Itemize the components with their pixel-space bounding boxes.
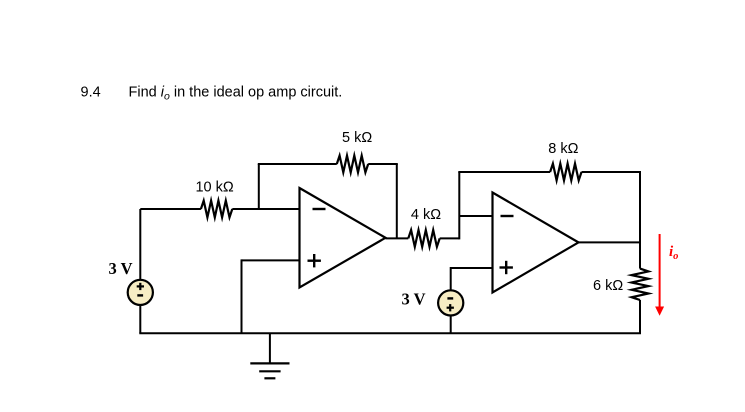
resistor R4 8 kOhm — [550, 164, 581, 181]
wire feedback-left vertical — [258, 164, 260, 210]
label 5 kOhm — [342, 130, 372, 146]
svg-text:3 V: 3 V — [402, 290, 426, 309]
label 4 kOhm — [411, 207, 441, 223]
voltage source V2 3 V — [438, 290, 463, 315]
wire non-inverting input U2 — [451, 267, 493, 269]
svg-text:3 V: 3 V — [109, 259, 133, 278]
wire feedback-right vertical — [396, 164, 398, 238]
svg-text:4 kΩ: 4 kΩ — [411, 207, 441, 223]
label 6 kOhm — [593, 278, 623, 294]
svg-text:8 kΩ: 8 kΩ — [548, 141, 578, 157]
wire middle vertical (node between R3 and U2) — [458, 172, 460, 239]
wire top-left horizontal to inverting input — [140, 208, 299, 210]
wire vertical to source V2 — [450, 267, 452, 333]
wire op-amp U1 output — [386, 237, 460, 239]
svg-text:io: io — [669, 244, 678, 262]
wire inverting input U2 — [459, 215, 492, 217]
resistor R1 10 kOhm — [201, 201, 232, 218]
label V1 value 3 V — [109, 259, 133, 278]
wire vertical from U1 plus input to ground rail — [241, 259, 243, 333]
svg-text:10 kΩ: 10 kΩ — [195, 180, 233, 196]
resistor R5 6 kOhm — [632, 269, 649, 300]
wire op-amp U2 output — [579, 241, 642, 243]
svg-text:Find io in the ideal op amp ci: Find io in the ideal op amp circuit. — [129, 85, 343, 103]
label 10 kOhm — [195, 180, 233, 196]
label V2 value 3 V — [402, 290, 426, 309]
wire top feedback horizontal — [258, 163, 398, 165]
wire bottom ground rail — [139, 332, 641, 334]
svg-text:9.4: 9.4 — [81, 85, 101, 101]
current arrow io — [655, 234, 664, 316]
voltage source V1 3 V — [128, 280, 153, 305]
wire top feedback 2 horizontal — [458, 171, 641, 173]
label io (red) — [669, 244, 678, 262]
ground — [250, 333, 289, 378]
svg-text:6 kΩ: 6 kΩ — [593, 278, 623, 294]
wire non-inverting input U1 — [242, 259, 300, 261]
resistor R3 4 kOhm — [408, 230, 439, 247]
resistor R2 5 kOhm — [337, 156, 368, 173]
title problem 9.4 — [81, 85, 343, 103]
wire right vertical — [639, 172, 641, 333]
op-amp U2 — [493, 193, 579, 293]
wire left vertical (source branch) — [139, 209, 141, 333]
svg-text:5 kΩ: 5 kΩ — [342, 130, 372, 146]
op-amp U1 — [300, 188, 386, 288]
label 8 kOhm — [548, 141, 578, 157]
